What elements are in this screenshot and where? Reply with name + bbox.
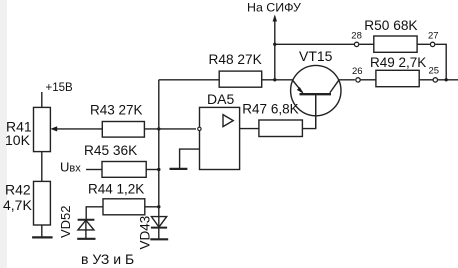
junction R48/riser — [273, 78, 276, 81]
resistor R44 — [103, 199, 145, 215]
wire DA5 second input to ground — [180, 149, 200, 169]
svg-text:R44 1,2K: R44 1,2K — [88, 182, 144, 197]
pin label 27 — [428, 30, 439, 41]
wire R48 to VT15 emitter — [262, 79, 293, 81]
transistor VT15 — [291, 65, 341, 128]
wire bus to R48 — [159, 79, 219, 81]
wire Uвх to R45 — [86, 169, 102, 171]
wire DA5 output to R47 — [240, 128, 259, 130]
resistor R50 — [374, 36, 417, 52]
op-amp DA5 — [198, 107, 240, 169]
wire R44 to VD52 cathode — [86, 207, 103, 220]
svg-text:R50 68K: R50 68K — [364, 18, 417, 33]
pin label 25 — [429, 66, 440, 77]
svg-text:10K: 10K — [5, 132, 31, 148]
label R47 6,8K — [242, 101, 298, 116]
svg-text:R49 2,7K: R49 2,7K — [370, 55, 426, 70]
ground at DA5 input — [170, 168, 188, 170]
wire R41 wiper to R43 — [55, 128, 102, 130]
wire VT15 collector to node 26 — [339, 79, 355, 81]
wire R47 to VT15 base — [302, 95, 315, 128]
wire R44 to bus — [145, 206, 159, 208]
svg-text:R43 27K: R43 27K — [90, 102, 143, 117]
label R43 27K — [90, 102, 143, 117]
svg-text:R47 6,8K: R47 6,8K — [242, 101, 298, 116]
svg-text:+15В: +15В — [46, 82, 74, 94]
svg-text:4,7K: 4,7K — [3, 197, 32, 213]
resistor R48 — [219, 71, 262, 87]
label VT15 — [299, 48, 333, 64]
label R44 1,2K — [88, 182, 144, 197]
resistor R47 — [259, 120, 303, 137]
wire node 26 to R49 — [360, 79, 376, 81]
label DA5 — [207, 91, 234, 107]
resistor R49 — [376, 70, 419, 86]
label R41 — [6, 119, 32, 135]
node 28 terminal — [354, 42, 358, 46]
wire R43 to DA5 inverting input — [144, 128, 196, 130]
svg-text:R48 27K: R48 27K — [209, 52, 262, 67]
resistor R45 — [102, 162, 146, 178]
junction bus/R43 — [157, 127, 160, 130]
junction riser/node 28 wire — [273, 43, 276, 46]
wire +15В to R41 — [41, 92, 43, 107]
svg-text:DA5: DA5 — [207, 91, 234, 107]
svg-text:Uвх: Uвх — [60, 160, 81, 175]
ground under VD52 — [77, 238, 95, 240]
label R42 — [5, 182, 31, 198]
wire R45 to bus — [146, 169, 159, 171]
wire vertical bus (summing node) — [158, 80, 160, 240]
diode VD43 — [151, 217, 167, 228]
pin label 28 — [351, 31, 362, 42]
svg-text:VD52: VD52 — [58, 205, 73, 238]
svg-text:R42: R42 — [5, 182, 31, 198]
junction bus/R45 — [157, 168, 160, 171]
svg-text:27: 27 — [428, 30, 439, 41]
label VD43 — [138, 216, 153, 250]
label R48 27K — [209, 52, 262, 67]
value label 10K — [5, 132, 31, 148]
pin label 26 — [352, 66, 363, 77]
node 25 terminal — [433, 78, 437, 82]
svg-text:R45 36K: R45 36K — [84, 143, 137, 158]
label R50 68K — [364, 18, 417, 33]
ground under VD43 — [150, 238, 168, 240]
net label На СИФУ — [247, 1, 301, 15]
junction rail/node 25 wire — [445, 78, 448, 81]
ground under R42 — [32, 236, 53, 238]
arrowhead На СИФУ — [273, 15, 277, 22]
wire node 27 down to node 25 rail — [435, 44, 446, 80]
label R45 36K — [84, 143, 137, 158]
svg-text:VD43: VD43 — [138, 216, 153, 250]
label VD52 — [58, 205, 73, 238]
resistor R41 (potentiometer body) — [34, 107, 51, 151]
net label +15В — [46, 82, 74, 94]
svg-text:На СИФУ: На СИФУ — [247, 1, 301, 15]
wire R49 to node 25 — [419, 79, 432, 81]
R41 wiper arrowhead — [50, 126, 57, 131]
wire node 25 to right edge — [438, 79, 458, 81]
diode VD52 — [78, 220, 95, 239]
svg-text:26: 26 — [352, 66, 363, 77]
wire R50 to node 27 — [417, 43, 430, 45]
value label 4,7K — [3, 197, 32, 213]
svg-text:25: 25 — [429, 66, 440, 77]
net label в УЗ и Б — [81, 251, 134, 267]
net label Uвх — [60, 160, 81, 175]
svg-text:в УЗ и Б: в УЗ и Б — [81, 251, 134, 267]
junction bus/R44 — [157, 205, 160, 208]
resistor R42 — [34, 181, 51, 225]
wire node 28 to R50 — [359, 43, 373, 45]
resistor R43 — [102, 122, 144, 138]
wire R42 to ground — [41, 225, 43, 237]
label R49 2,7K — [370, 55, 426, 70]
svg-text:28: 28 — [351, 31, 362, 42]
wire R41 to R42 — [41, 152, 43, 182]
node 26 terminal — [356, 78, 360, 82]
svg-text:VT15: VT15 — [299, 48, 333, 64]
wire riser to node 28 — [275, 43, 354, 45]
wire riser to На СИФУ — [274, 18, 276, 80]
node 27 terminal — [430, 42, 434, 46]
